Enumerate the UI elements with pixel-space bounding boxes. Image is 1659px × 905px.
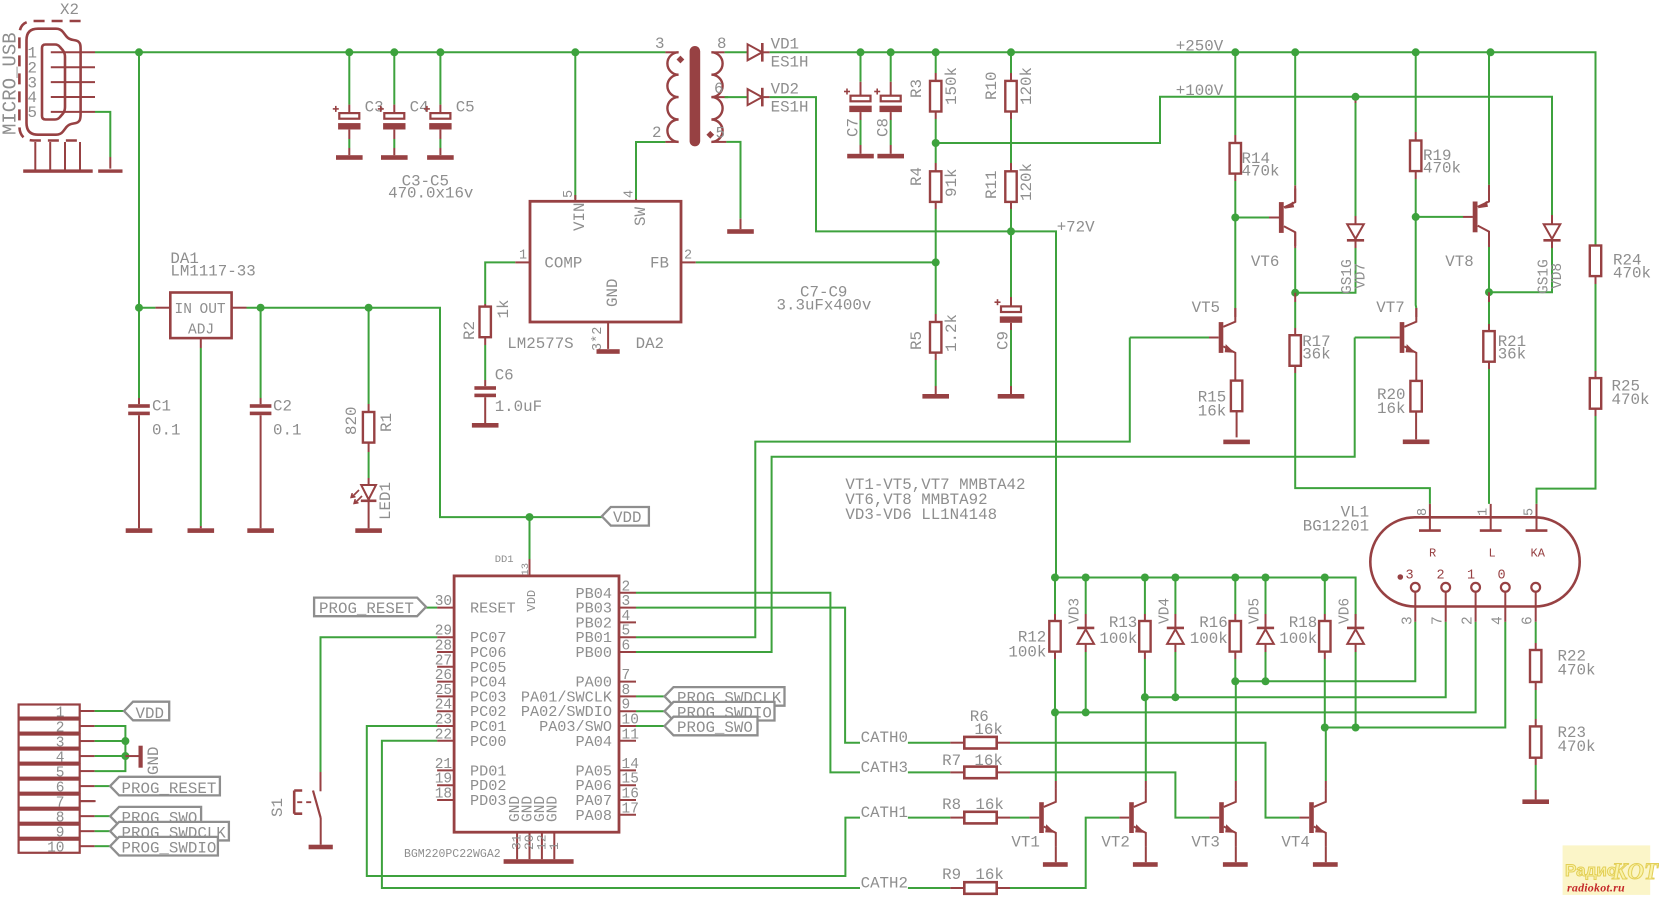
- svg-text:470k: 470k: [1242, 163, 1280, 181]
- svg-text:PROG_SWO: PROG_SWO: [677, 719, 753, 737]
- junction: [121, 737, 129, 745]
- svg-text:6: 6: [622, 639, 631, 655]
- svg-text:VT4: VT4: [1281, 833, 1309, 851]
- transistor VT3: [1191, 681, 1235, 862]
- junction: [365, 304, 373, 312]
- junction: [1007, 227, 1015, 235]
- wire digit0 line: [1325, 622, 1506, 728]
- junction: [1082, 708, 1090, 716]
- resistor R23: [1530, 724, 1595, 799]
- resistor R20: [1377, 367, 1422, 440]
- svg-text:120k: 120k: [1018, 67, 1036, 105]
- resistor R5: [908, 262, 961, 394]
- svg-text:470.0x16v: 470.0x16v: [388, 185, 473, 203]
- svg-text:VT7: VT7: [1376, 299, 1404, 317]
- svg-text:C9: C9: [995, 331, 1013, 350]
- svg-text:VT8: VT8: [1445, 253, 1473, 271]
- ground: [1313, 862, 1338, 867]
- junction: [1321, 574, 1329, 582]
- svg-text:COMP: COMP: [544, 255, 582, 273]
- transistor VT2: [1101, 697, 1145, 862]
- microcontroller DD1 BGM220PC22WGA2: [404, 554, 639, 864]
- junction: [1291, 48, 1299, 56]
- ground: [877, 154, 904, 159]
- wire CATH1 net: [367, 726, 860, 876]
- transistor VT5: [1130, 299, 1236, 367]
- svg-text:3: 3: [622, 594, 631, 610]
- flag PROG_SWO: [636, 717, 758, 737]
- svg-text:16k: 16k: [975, 796, 1003, 814]
- nixie tube VL1 BG12201: [1303, 504, 1580, 626]
- svg-text:S1: S1: [269, 798, 287, 817]
- svg-text:CATH3: CATH3: [861, 759, 908, 777]
- svg-text:470k: 470k: [1558, 662, 1596, 680]
- svg-text:OUT: OUT: [200, 302, 226, 318]
- svg-text:2: 2: [652, 124, 661, 142]
- wire +72V net: [770, 97, 1056, 577]
- wire VT8 emitter: [1488, 52, 1490, 184]
- wire digit3 line: [1235, 622, 1415, 682]
- svg-text:C1: C1: [152, 397, 171, 415]
- svg-text:VD4: VD4: [1157, 598, 1173, 624]
- resistor R22: [1530, 622, 1595, 727]
- ground GND: [125, 746, 163, 775]
- diode VD4: [1157, 578, 1184, 653]
- flag VDD: [95, 702, 170, 723]
- svg-text:1.0uF: 1.0uF: [495, 398, 542, 416]
- svg-text:VT5: VT5: [1192, 299, 1220, 317]
- svg-text:150k: 150k: [943, 67, 961, 105]
- resistor R4: [908, 143, 961, 262]
- ground: [188, 528, 215, 533]
- ground: [1223, 440, 1250, 445]
- svg-text:Радио: Радио: [1565, 861, 1617, 880]
- svg-text:5: 5: [716, 124, 725, 142]
- svg-text:100k: 100k: [1099, 630, 1137, 648]
- svg-text:1k: 1k: [495, 300, 513, 319]
- svg-text:C6: C6: [495, 367, 514, 385]
- svg-text:21: 21: [435, 757, 452, 773]
- flag PROG_SWDCLK: [95, 822, 229, 843]
- diode VD1 ES1H: [748, 36, 809, 72]
- ground: [922, 394, 949, 399]
- svg-text:27: 27: [435, 653, 452, 669]
- ground: [309, 845, 333, 850]
- wire VBUS to DA1 IN: [138, 52, 140, 307]
- wire PC07 to S1: [321, 637, 438, 772]
- label CATH1: [861, 804, 951, 822]
- wire to +100V: [936, 97, 1552, 215]
- svg-text:16k: 16k: [1198, 402, 1226, 420]
- junction: [526, 513, 534, 521]
- resistor R9: [942, 866, 1010, 894]
- svg-text:120k: 120k: [1018, 163, 1036, 201]
- svg-text:5: 5: [28, 104, 37, 122]
- svg-text:36k: 36k: [1498, 346, 1526, 364]
- label CATH3: [861, 759, 951, 777]
- wire CATH1 to VT1: [1010, 817, 1029, 819]
- svg-text:VD2: VD2: [771, 80, 799, 98]
- ground: [998, 394, 1025, 399]
- resistor R21: [1483, 292, 1526, 504]
- resistor R14: [1230, 52, 1280, 217]
- svg-text:30: 30: [435, 594, 452, 610]
- transistor VT4: [1281, 728, 1325, 863]
- svg-text:470k: 470k: [1558, 738, 1596, 756]
- svg-text:MICRO_USB: MICRO_USB: [0, 32, 22, 135]
- junction: [1352, 724, 1360, 732]
- svg-text:VT3: VT3: [1191, 833, 1219, 851]
- svg-text:14: 14: [622, 757, 639, 773]
- ground: [427, 155, 454, 160]
- wire digit1 line: [1055, 622, 1476, 713]
- flag PROG_SWDCLK: [636, 687, 785, 707]
- wire PB00 to VT7 base: [636, 338, 1355, 653]
- junction: [1262, 677, 1270, 685]
- svg-text:3.3uFx400v: 3.3uFx400v: [777, 297, 872, 315]
- label MICRO_USB: [0, 32, 22, 135]
- connector X2 MICRO_USB: [19, 1, 80, 141]
- wire DA1 ADJ: [200, 348, 202, 528]
- ground: [126, 528, 153, 533]
- svg-text:SW: SW: [632, 207, 650, 226]
- wire: [725, 51, 748, 53]
- wire VBUS rail: [95, 51, 665, 53]
- svg-text:6: 6: [1521, 616, 1537, 625]
- label C3-C5: [388, 173, 473, 203]
- svg-text:R1: R1: [378, 413, 396, 432]
- svg-text:11: 11: [622, 727, 639, 743]
- svg-text:IN: IN: [175, 302, 192, 318]
- capacitor C6: [474, 367, 542, 424]
- svg-text:25: 25: [435, 683, 452, 699]
- resistor R10: [983, 52, 1036, 163]
- junction: [1291, 289, 1299, 297]
- junction: [1487, 48, 1495, 56]
- svg-text:24: 24: [435, 698, 452, 714]
- svg-text:16k: 16k: [1377, 400, 1405, 418]
- svg-text:R8: R8: [942, 796, 961, 814]
- capacitor C7: [844, 52, 872, 154]
- label C7-C9: [777, 284, 872, 315]
- svg-text:820: 820: [343, 407, 361, 435]
- note text: [845, 476, 1025, 524]
- wire pin5 to ground: [95, 112, 110, 169]
- watermark radiokot: [1563, 845, 1659, 895]
- resistor R25: [1537, 378, 1650, 504]
- svg-text:R11: R11: [983, 171, 1001, 199]
- junction: [1051, 708, 1059, 716]
- svg-text:29: 29: [435, 624, 452, 640]
- flag PROG_RESET: [95, 777, 220, 798]
- junction: [1141, 574, 1149, 582]
- svg-text:470k: 470k: [1612, 391, 1650, 409]
- wire bias bus: [1055, 578, 1356, 621]
- capacitor C9: [995, 231, 1023, 394]
- svg-text:16k: 16k: [974, 721, 1002, 739]
- resistor R19: [1410, 52, 1461, 217]
- resistor R17: [1290, 293, 1430, 504]
- svg-text:VD6: VD6: [1338, 598, 1354, 624]
- junction: [135, 304, 143, 312]
- junction: [135, 48, 143, 56]
- svg-text:C8: C8: [875, 118, 893, 137]
- svg-text:8: 8: [717, 35, 726, 53]
- capacitor C2: [250, 308, 302, 529]
- resistor R2: [461, 300, 513, 387]
- junction: [345, 48, 353, 56]
- label +100V: [1176, 82, 1224, 100]
- flag PROG_SWDIO: [95, 837, 218, 858]
- svg-text:C4: C4: [410, 98, 429, 116]
- transistor VT7: [1355, 299, 1417, 367]
- svg-text:9: 9: [622, 698, 631, 714]
- resistor R7: [942, 752, 1010, 778]
- svg-text:8: 8: [1416, 508, 1431, 516]
- svg-text:0.1: 0.1: [152, 421, 180, 439]
- svg-text:BGM220PC22WGA2: BGM220PC22WGA2: [404, 848, 501, 861]
- svg-text:R10: R10: [983, 72, 1001, 100]
- svg-text:100k: 100k: [1008, 644, 1046, 662]
- junction: [932, 48, 940, 56]
- svg-text:26: 26: [435, 668, 452, 684]
- junction: [1051, 574, 1059, 582]
- transistor VT8: [1416, 185, 1489, 271]
- junction: [857, 48, 865, 56]
- resistor R16: [1190, 578, 1241, 660]
- svg-text:100k: 100k: [1190, 630, 1228, 648]
- resistor R18: [1279, 578, 1330, 660]
- svg-text:7: 7: [622, 668, 631, 684]
- svg-text:VD5: VD5: [1248, 598, 1264, 624]
- flag PROG_SWO: [95, 807, 202, 828]
- svg-text:16: 16: [622, 787, 639, 803]
- junction: [1171, 693, 1179, 701]
- svg-text:R3: R3: [908, 79, 926, 98]
- ground: [472, 423, 499, 428]
- junction: [1231, 574, 1239, 582]
- diode VD2 ES1H: [748, 80, 809, 116]
- svg-text:VT2: VT2: [1101, 833, 1129, 851]
- ground: [1403, 440, 1430, 445]
- svg-text:C5: C5: [456, 98, 475, 116]
- svg-text:22: 22: [435, 727, 452, 743]
- wire: [725, 96, 748, 98]
- wire COMP to R2: [485, 262, 515, 304]
- svg-text:VT1: VT1: [1011, 833, 1039, 851]
- svg-text:5: 5: [1523, 508, 1538, 516]
- svg-text:7: 7: [1431, 616, 1447, 625]
- svg-text:L: L: [1489, 547, 1496, 561]
- junction: [390, 48, 398, 56]
- svg-text:2: 2: [1437, 569, 1445, 584]
- svg-text:radiokot.ru: radiokot.ru: [1567, 881, 1625, 895]
- USB shield pins: [23, 142, 93, 173]
- flag VDD: [602, 507, 649, 527]
- wire 3V3 rail: [247, 308, 602, 517]
- svg-text:3: 3: [655, 35, 664, 53]
- ground: [1522, 799, 1549, 804]
- svg-text:5: 5: [622, 624, 631, 640]
- svg-text:ES1H: ES1H: [771, 54, 809, 72]
- pin 7 stub: [80, 800, 96, 802]
- junction: [1007, 48, 1015, 56]
- capacitor C1: [128, 308, 180, 529]
- transistor VT6: [1235, 185, 1295, 271]
- junction: [436, 48, 444, 56]
- junction: [1231, 677, 1239, 685]
- junction: [121, 752, 129, 760]
- pin 5: [28, 104, 96, 122]
- junction: [571, 48, 579, 56]
- svg-text:1: 1: [519, 249, 527, 264]
- junction: [1321, 724, 1329, 732]
- svg-text:PROG_RESET: PROG_RESET: [319, 600, 414, 618]
- wire DA1 in: [139, 307, 155, 309]
- svg-text:1: 1: [547, 842, 562, 850]
- svg-text:23: 23: [435, 713, 452, 729]
- svg-text:C2: C2: [273, 397, 292, 415]
- ground: [1043, 862, 1068, 867]
- svg-text:R7: R7: [942, 752, 961, 770]
- svg-text:16k: 16k: [974, 752, 1002, 770]
- svg-text:0: 0: [1498, 569, 1506, 584]
- flag PROG_SWDIO: [636, 702, 775, 722]
- svg-text:16k: 16k: [975, 866, 1003, 884]
- resistor R1: [343, 308, 396, 485]
- svg-text:VT6: VT6: [1251, 253, 1279, 271]
- switch S1: [269, 772, 321, 845]
- svg-text:4: 4: [622, 609, 631, 625]
- junction: [887, 48, 895, 56]
- svg-text:91k: 91k: [943, 169, 961, 197]
- capacitor C4: [378, 52, 429, 155]
- resistor R11: [983, 163, 1036, 231]
- svg-text:5: 5: [562, 190, 577, 198]
- svg-text:ES1H: ES1H: [771, 98, 809, 116]
- wire VT5 collector: [1234, 218, 1236, 318]
- svg-text:FB: FB: [650, 255, 669, 273]
- diode VD5: [1248, 578, 1275, 653]
- resistor R8: [942, 796, 1010, 824]
- svg-text:2: 2: [622, 579, 631, 595]
- svg-text:PD03: PD03: [470, 792, 506, 810]
- junction: [1171, 574, 1179, 582]
- wire CATH2 to VT2: [1010, 818, 1119, 888]
- ground: [336, 155, 363, 160]
- svg-text:CATH2: CATH2: [861, 874, 908, 892]
- svg-text:VDD: VDD: [136, 705, 164, 723]
- svg-text:VD3-VD6 LL1N4148: VD3-VD6 LL1N4148: [845, 506, 997, 524]
- svg-text:LM2577S: LM2577S: [507, 335, 573, 353]
- svg-text:6: 6: [714, 80, 723, 98]
- svg-text:1.2k: 1.2k: [943, 314, 961, 352]
- svg-text:VD7: VD7: [1354, 263, 1370, 289]
- svg-text:PA04: PA04: [576, 733, 612, 751]
- wire VDD to DD1 pin13: [529, 517, 531, 576]
- pin 3: [28, 74, 96, 92]
- svg-text:PC00: PC00: [470, 733, 506, 751]
- resistor R6: [950, 708, 1010, 748]
- svg-text:10: 10: [47, 841, 64, 857]
- svg-text:LED1: LED1: [377, 482, 395, 520]
- flag PROG_RESET: [314, 598, 437, 618]
- svg-text:X2: X2: [60, 1, 79, 19]
- wire CATH3 to VT3: [1010, 772, 1209, 817]
- svg-text:17: 17: [622, 801, 639, 817]
- connector SWD header: [19, 705, 95, 857]
- svg-text:15: 15: [622, 772, 639, 788]
- svg-text:3: 3: [1400, 616, 1416, 625]
- svg-text:ADJ: ADJ: [188, 323, 214, 339]
- svg-text:VIN: VIN: [571, 203, 589, 231]
- svg-text:PA08: PA08: [576, 807, 612, 825]
- pin 4: [28, 89, 96, 107]
- ground: [355, 528, 382, 533]
- capacitor C8: [874, 52, 902, 154]
- svg-text:PB00: PB00: [576, 644, 612, 662]
- wire CATH0 to VT4: [1010, 743, 1299, 818]
- svg-text:DA2: DA2: [636, 335, 664, 353]
- svg-text:+72V: +72V: [1057, 219, 1095, 237]
- svg-text:R2: R2: [461, 321, 479, 340]
- diode VD3: [1068, 578, 1095, 653]
- svg-text:RESET: RESET: [470, 600, 516, 618]
- resistor R24: [1590, 246, 1651, 379]
- svg-text:R4: R4: [908, 167, 926, 186]
- svg-text:VDD: VDD: [613, 509, 641, 527]
- svg-text:2: 2: [684, 249, 692, 264]
- wire PB01 to VT5 base: [636, 338, 1130, 638]
- svg-text:0.1: 0.1: [273, 421, 301, 439]
- resistor R13: [1099, 578, 1150, 660]
- label +250V: [1176, 38, 1224, 56]
- regulator DA1 LM1117-33: [155, 250, 255, 348]
- svg-text:DD1: DD1: [495, 554, 514, 566]
- resistor R3: [908, 52, 961, 143]
- junction: [932, 258, 940, 266]
- diode VD8 GS1G: [1489, 215, 1566, 294]
- svg-text:1: 1: [1477, 508, 1492, 516]
- svg-text:VD1: VD1: [771, 36, 799, 54]
- wire VT7 collector: [1415, 217, 1418, 317]
- wire FB: [696, 261, 936, 263]
- label CATH2: [861, 874, 951, 892]
- svg-text:CATH0: CATH0: [861, 729, 908, 747]
- ground: [847, 154, 874, 159]
- svg-text:LM1117-33: LM1117-33: [170, 263, 255, 281]
- converter DA2 LM2577S: [507, 190, 696, 353]
- wire SW to transformer pin2: [636, 142, 665, 199]
- svg-text:CATH1: CATH1: [861, 804, 908, 822]
- wire VT8 collector: [1488, 232, 1490, 293]
- junction: [1352, 93, 1360, 101]
- svg-text:19: 19: [435, 772, 452, 788]
- wire VIN drop: [574, 52, 576, 199]
- svg-text:KA: KA: [1531, 547, 1546, 561]
- pin 1: [28, 45, 96, 63]
- wire CATH3 net: [636, 593, 860, 773]
- resistor R12: [1008, 578, 1060, 662]
- capacitor C3: [333, 52, 384, 155]
- svg-text:470k: 470k: [1613, 265, 1651, 283]
- svg-text:1: 1: [1467, 569, 1475, 584]
- wire +250V rail: [770, 52, 1596, 245]
- transistor VT1: [1011, 712, 1055, 862]
- junction: [257, 304, 265, 312]
- svg-text:3*2: 3*2: [591, 327, 606, 351]
- junction: [1082, 574, 1090, 582]
